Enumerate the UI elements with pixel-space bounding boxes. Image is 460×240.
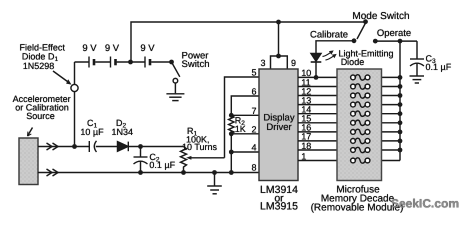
power switch S1 (169, 60, 180, 94)
label R2 1K (235, 116, 246, 134)
node operate contact (373, 39, 378, 44)
fuse row 9 (351, 147, 370, 152)
arrow pointer to D1 (53, 71, 72, 85)
node bus row9 (398, 148, 403, 153)
svg-text:0.1 µF: 0.1 µF (149, 160, 175, 170)
wire pin3 pin9 top loop (271, 56, 288, 69)
fuse row 7 (351, 129, 370, 134)
svg-text:1K: 1K (235, 124, 246, 134)
svg-text:4: 4 (251, 143, 256, 153)
svg-text:3: 3 (260, 58, 265, 68)
wire C1 to D2 (96, 146, 118, 148)
svg-text:(Removable Module): (Removable Module) (311, 203, 404, 214)
node bus operate junction (398, 39, 403, 44)
svg-text:8: 8 (251, 162, 256, 172)
wire supply drop to loop (278, 22, 280, 56)
wire pin 11 row (298, 86, 400, 88)
svg-text:9: 9 (291, 58, 296, 68)
wire pin 14 row (298, 113, 400, 115)
diode D2 1N34 (118, 142, 129, 152)
chevrons upper output (47, 143, 59, 150)
node bus row2 (398, 84, 403, 89)
label Field-Effect Diode D1 1N5298 (20, 43, 66, 71)
label C2 0.1uF (149, 152, 175, 170)
svg-text:9 V: 9 V (140, 43, 155, 54)
svg-text:SeekIC.com: SeekIC.com (391, 197, 459, 211)
wire lower signal output / ground rail (38, 172, 259, 174)
node loop junction (276, 54, 281, 59)
wire pin 15 row (298, 122, 400, 124)
wire pin 2 stub (231, 133, 259, 135)
wire left vertical to FE diode (74, 62, 76, 84)
node ground rail R2 junction (229, 170, 234, 175)
node R1 bottom junction (181, 170, 186, 175)
node pin4 junction (229, 150, 234, 155)
node ground stub junction (212, 170, 217, 175)
fuse row 2 (351, 84, 370, 89)
node C2 bottom junction (138, 170, 143, 175)
svg-text:5: 5 (251, 68, 256, 78)
wire pin 18 row (298, 149, 400, 151)
wire pin 6 to pin 7 (231, 96, 259, 115)
battery B2 9V (111, 57, 116, 68)
capacitor C3 (410, 41, 424, 76)
wire R2 chain down (230, 134, 232, 173)
potentiometer R1 100K zigzag (181, 147, 187, 173)
arrow pointer to source box (28, 128, 33, 137)
label D2 1N34 (112, 118, 134, 137)
R1 wiper arrow (186, 156, 224, 160)
label Power Switch (182, 51, 210, 70)
node top rail junction (276, 20, 281, 25)
svg-text:10 µF: 10 µF (80, 127, 104, 137)
node bus row4 (398, 102, 403, 107)
node pin2 junction (229, 131, 234, 136)
microfuse module box (337, 69, 382, 181)
node LED pin10 junction (314, 75, 319, 80)
svg-text:Diode: Diode (341, 57, 365, 67)
label Display Driver (263, 113, 294, 134)
svg-text:9 V: 9 V (105, 43, 120, 54)
label Microfuse Memory Decade (311, 185, 404, 214)
fuse row 4 (351, 102, 370, 107)
ground under rail (207, 186, 222, 194)
svg-text:Mode Switch: Mode Switch (352, 11, 409, 22)
svg-text:Operate: Operate (377, 28, 411, 39)
svg-text:Source: Source (26, 111, 55, 121)
label C1 10uF (80, 118, 104, 137)
svg-text:10 Turns: 10 Turns (182, 142, 218, 152)
ground under power switch (166, 94, 184, 101)
svg-text:Calibrate: Calibrate (310, 30, 348, 41)
fuse row 8 (351, 138, 370, 143)
svg-text:1N5298: 1N5298 (23, 61, 55, 71)
battery B3 9V (145, 57, 150, 68)
wire upper signal output (38, 146, 89, 148)
wire pin 13 row (298, 104, 400, 106)
svg-text:2: 2 (251, 124, 256, 134)
svg-text:9 V: 9 V (82, 43, 97, 54)
IC U1 LM3914 display driver box (259, 69, 298, 181)
wire pin 4 stub (231, 151, 259, 153)
wire pin 7 stub (231, 114, 259, 116)
node C1 input junction (72, 144, 77, 149)
label C3 0.1uF (426, 54, 452, 73)
accelerometer source box (19, 138, 38, 185)
fuse row 10 (351, 158, 370, 163)
label LM3914 or LM3915 (260, 184, 298, 213)
svg-text:Driver: Driver (266, 122, 291, 133)
field-effect diode D1 circle node (71, 84, 78, 91)
svg-text:1: 1 (301, 151, 306, 161)
label Light-Emitting Diode (339, 49, 394, 67)
svg-text:Switch: Switch (182, 59, 210, 70)
wire operate to C3 (375, 40, 417, 42)
node calibrate contact (352, 38, 357, 43)
wire pin 12 row (298, 95, 400, 97)
fuse row 5 (351, 111, 370, 116)
wire battery row (75, 61, 172, 63)
wire pin 1 row (298, 160, 400, 162)
wire pin 16 row (298, 131, 400, 133)
mode switch S2 pole (363, 19, 368, 24)
svg-text:0.1 µF: 0.1 µF (426, 62, 452, 72)
node bus row6 (398, 120, 403, 125)
svg-text:6: 6 (251, 87, 256, 97)
fuse row 3 (351, 93, 370, 98)
capacitor C2 (134, 147, 148, 173)
node bus row3 (398, 93, 403, 98)
svg-text:1N34: 1N34 (112, 127, 134, 137)
wire ground stub (214, 173, 216, 186)
wire FE diode to signal node (74, 92, 76, 147)
fuse row 6 (351, 120, 370, 125)
node bus row7 (398, 130, 403, 135)
node bus row8 (398, 139, 403, 144)
node C2 top junction (138, 144, 143, 149)
LED emission arrows (323, 50, 337, 60)
node bus row1 (398, 75, 403, 80)
node bus row5 (398, 111, 403, 116)
wire pin 10 row (298, 76, 400, 78)
wire wiper to pin 5 (225, 77, 260, 158)
svg-text:18: 18 (301, 141, 311, 151)
chevrons lower output (47, 169, 59, 176)
wire pin 17 row (298, 140, 400, 142)
wire calibrate to LED (316, 41, 354, 54)
LED light emitting diode (311, 54, 322, 78)
capacitor C1 (89, 141, 96, 152)
svg-text:7: 7 (251, 106, 256, 116)
label Accelerometer or Calibration Source (13, 94, 71, 121)
wire D2 to pot (128, 146, 183, 148)
node supply tap junction (128, 60, 133, 65)
svg-text:LM3915: LM3915 (260, 201, 298, 213)
node pin7 junction (229, 113, 234, 118)
wire top supply rail (131, 22, 366, 62)
label R1 100K 10 Turns (182, 126, 218, 152)
resistor R2 1K (229, 115, 234, 134)
mode switch arm (357, 23, 366, 39)
battery B1 9V (89, 57, 94, 68)
fuse row 1 (351, 75, 370, 80)
wire right bus (399, 41, 401, 160)
ground under C3 (410, 76, 425, 83)
